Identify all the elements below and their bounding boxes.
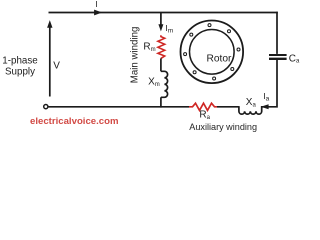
svg-text:Supply: Supply (5, 66, 35, 77)
arrow current Im (pointing down) (158, 24, 163, 31)
arrow current I on top wire (94, 10, 102, 16)
capacitor Ca plates (269, 54, 287, 56)
arrow current Ia (pointing left) (261, 104, 269, 109)
resistor Ra (red zigzag) (189, 103, 217, 110)
svg-text:1-phase: 1-phase (2, 56, 38, 67)
supply terminal circle (44, 105, 48, 109)
wire main branch lower (160, 97, 162, 107)
wire right vertical lower (capacitor to bottom wire) (261, 60, 277, 107)
wire main branch upper (160, 13, 162, 26)
svg-text:Rotor: Rotor (207, 54, 233, 65)
wire right vertical upper (to capacitor) (276, 12, 278, 54)
inductor Xa (coil) (239, 106, 262, 114)
rotor inner circle (190, 30, 235, 75)
svg-text:electricalvoice.com: electricalvoice.com (30, 116, 119, 127)
wire bottom between Ra and Xa (217, 106, 239, 108)
svg-text:I: I (95, 0, 97, 9)
rotor winding slot dots (184, 24, 240, 80)
wire main branch middle (160, 58, 162, 71)
svg-text:V: V (53, 61, 60, 72)
rotor outer circle (stator bore) (181, 21, 244, 84)
svg-text:Main winding: Main winding (129, 27, 140, 84)
voltage arrow V line (49, 27, 51, 97)
wire bottom horizontal left segment (48, 106, 189, 108)
svg-text:Auxiliary winding: Auxiliary winding (189, 122, 257, 132)
voltage arrow head (47, 20, 52, 28)
inductor Xm (coil) (161, 71, 168, 97)
resistor Rm (red zigzag vertical) (158, 35, 165, 58)
wire top horizontal (49, 12, 278, 14)
